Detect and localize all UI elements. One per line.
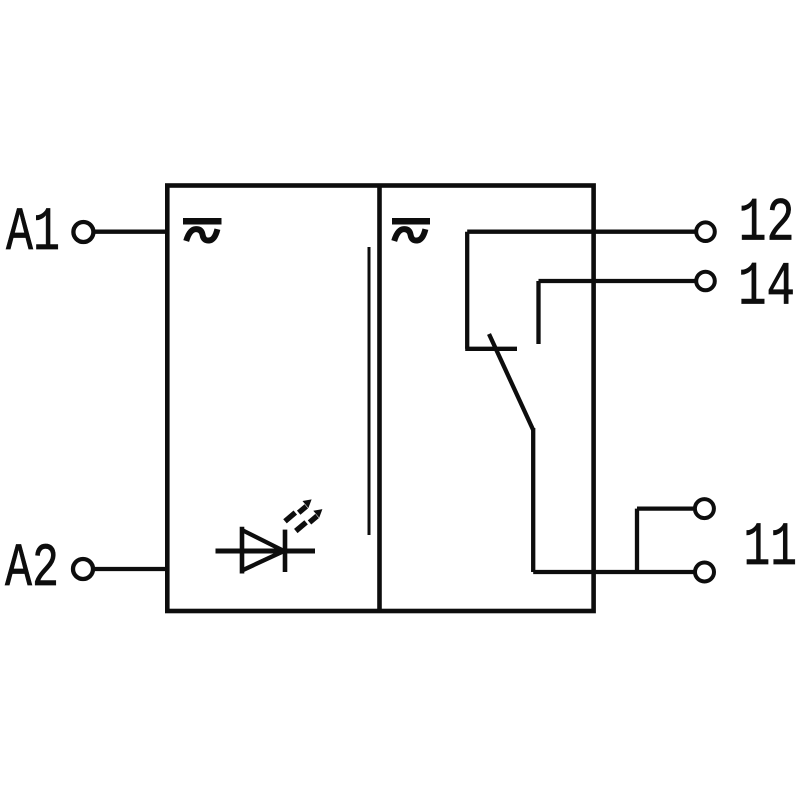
svg-text:12: 12 (739, 190, 795, 259)
svg-text:A1: A1 (6, 199, 60, 268)
svg-text:A2: A2 (5, 535, 59, 604)
svg-text:14: 14 (738, 254, 795, 323)
svg-text:11: 11 (744, 514, 798, 583)
